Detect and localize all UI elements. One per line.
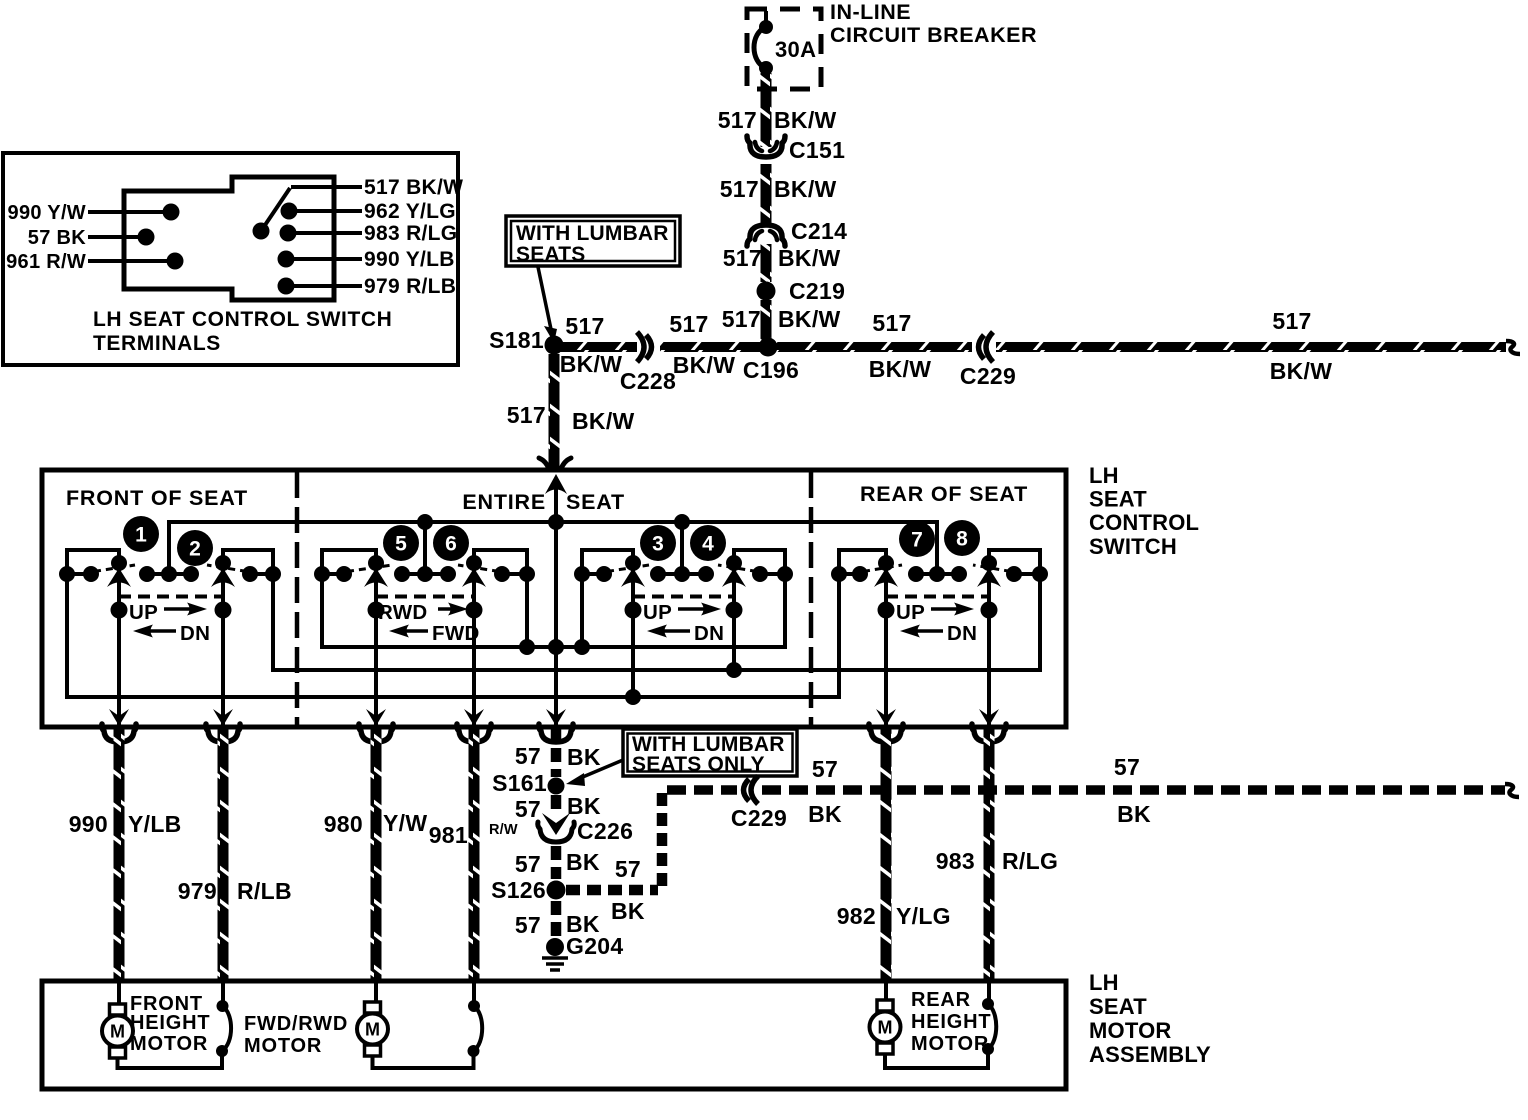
svg-text:517: 517 [720, 176, 759, 202]
svg-text:ASSEMBLY: ASSEMBLY [1089, 1042, 1211, 1067]
svg-text:517: 517 [722, 306, 761, 332]
svg-text:Y/LG: Y/LG [896, 903, 951, 929]
svg-text:517: 517 [723, 245, 762, 271]
svg-text:57: 57 [515, 743, 541, 769]
svg-text:SEATS ONLY: SEATS ONLY [632, 753, 765, 776]
svg-text:BK: BK [566, 849, 600, 875]
svg-text:UP: UP [896, 601, 925, 624]
svg-text:BK: BK [1117, 801, 1151, 827]
svg-text:WITH LUMBAR: WITH LUMBAR [516, 222, 669, 245]
svg-text:R/W: R/W [489, 822, 518, 838]
svg-text:UP: UP [643, 601, 672, 624]
svg-text:BK/W: BK/W [774, 107, 837, 133]
svg-text:983: 983 [936, 848, 975, 874]
svg-text:CONTROL: CONTROL [1089, 510, 1199, 535]
svg-text:57: 57 [1114, 754, 1140, 780]
svg-text:980: 980 [324, 811, 363, 837]
svg-text:BK: BK [567, 793, 601, 819]
svg-text:990: 990 [69, 811, 108, 837]
svg-text:S126: S126 [491, 877, 546, 903]
svg-text:M: M [365, 1020, 380, 1040]
svg-text:Y/W: Y/W [383, 810, 427, 836]
svg-text:SWITCH: SWITCH [1089, 534, 1177, 559]
svg-text:C219: C219 [789, 278, 845, 304]
svg-text:DN: DN [694, 622, 724, 645]
svg-text:S161: S161 [492, 770, 547, 796]
svg-text:517: 517 [718, 107, 757, 133]
svg-text:MOTOR: MOTOR [130, 1033, 208, 1055]
svg-text:30A: 30A [775, 37, 816, 62]
svg-text:RWD: RWD [378, 601, 428, 624]
svg-text:C226: C226 [577, 818, 633, 844]
svg-text:C228: C228 [620, 368, 676, 394]
svg-text:BK/W: BK/W [572, 408, 635, 434]
svg-text:FWD/RWD: FWD/RWD [244, 1013, 348, 1035]
svg-text:57: 57 [812, 756, 838, 782]
svg-text:517: 517 [872, 310, 911, 336]
svg-text:FRONT OF SEAT: FRONT OF SEAT [66, 486, 248, 510]
svg-text:CIRCUIT BREAKER: CIRCUIT BREAKER [830, 23, 1037, 47]
svg-text:BK/W: BK/W [1270, 358, 1333, 384]
svg-text:LH: LH [1089, 463, 1119, 488]
svg-text:SEAT: SEAT [1089, 994, 1147, 1019]
svg-text:979: 979 [178, 878, 217, 904]
svg-text:6: 6 [445, 533, 457, 556]
svg-text:DN: DN [180, 622, 210, 645]
svg-text:961 R/W: 961 R/W [6, 251, 86, 273]
svg-text:4: 4 [702, 533, 714, 556]
svg-text:BK/W: BK/W [673, 352, 736, 378]
svg-text:R/LG: R/LG [1002, 848, 1058, 874]
svg-text:TERMINALS: TERMINALS [93, 332, 221, 355]
svg-text:979 R/LB: 979 R/LB [364, 275, 456, 298]
svg-text:3: 3 [652, 533, 664, 556]
svg-text:REAR OF SEAT: REAR OF SEAT [860, 482, 1028, 506]
svg-text:REAR: REAR [911, 989, 971, 1011]
svg-text:57: 57 [615, 856, 641, 882]
svg-text:BK/W: BK/W [869, 356, 932, 382]
svg-text:BK: BK [567, 744, 601, 770]
svg-text:981: 981 [429, 822, 468, 848]
svg-text:57 BK: 57 BK [28, 227, 86, 249]
svg-text:517: 517 [565, 313, 604, 339]
svg-text:C229: C229 [731, 805, 787, 831]
svg-text:DN: DN [947, 622, 977, 645]
svg-text:HEIGHT: HEIGHT [130, 1012, 210, 1034]
svg-text:5: 5 [395, 533, 407, 556]
svg-text:BK/W: BK/W [778, 306, 841, 332]
svg-text:C151: C151 [789, 137, 845, 163]
svg-text:BK: BK [808, 801, 842, 827]
svg-text:HEIGHT: HEIGHT [911, 1011, 991, 1033]
svg-text:517: 517 [669, 311, 708, 337]
svg-text:LH: LH [1089, 970, 1119, 995]
svg-text:MOTOR: MOTOR [244, 1035, 322, 1057]
svg-text:ENTIRE: ENTIRE [462, 490, 546, 514]
svg-text:BK/W: BK/W [778, 245, 841, 271]
svg-text:M: M [878, 1018, 893, 1038]
svg-text:983 R/LG: 983 R/LG [364, 222, 457, 245]
svg-text:C214: C214 [791, 218, 847, 244]
svg-text:Y/LB: Y/LB [128, 811, 182, 837]
svg-text:BK/W: BK/W [774, 176, 837, 202]
svg-text:S181: S181 [489, 327, 544, 353]
svg-text:517: 517 [507, 402, 546, 428]
svg-text:SEAT: SEAT [1089, 487, 1147, 512]
svg-text:MOTOR: MOTOR [1089, 1018, 1171, 1043]
svg-text:SEATS: SEATS [516, 243, 585, 266]
svg-text:BK/W: BK/W [560, 351, 623, 377]
svg-text:517: 517 [1272, 308, 1311, 334]
svg-text:R/LB: R/LB [237, 878, 292, 904]
svg-text:517 BK/W: 517 BK/W [364, 176, 463, 199]
svg-text:BK: BK [611, 898, 645, 924]
svg-text:C196: C196 [743, 357, 799, 383]
svg-text:982: 982 [837, 903, 876, 929]
svg-text:962 Y/LG: 962 Y/LG [364, 200, 456, 223]
svg-text:990 Y/LB: 990 Y/LB [364, 248, 455, 271]
svg-text:M: M [110, 1022, 125, 1042]
svg-text:57: 57 [515, 912, 541, 938]
svg-text:57: 57 [515, 851, 541, 877]
svg-text:SEAT: SEAT [566, 490, 625, 514]
svg-text:IN-LINE: IN-LINE [830, 0, 911, 24]
svg-text:7: 7 [911, 529, 923, 552]
svg-text:2: 2 [189, 538, 201, 561]
svg-text:UP: UP [129, 601, 158, 624]
svg-text:990 Y/W: 990 Y/W [8, 202, 86, 224]
svg-text:1: 1 [135, 524, 147, 547]
svg-text:MOTOR: MOTOR [911, 1033, 989, 1055]
svg-text:LH SEAT CONTROL SWITCH: LH SEAT CONTROL SWITCH [93, 308, 392, 331]
svg-text:G204: G204 [566, 933, 623, 959]
svg-text:C229: C229 [960, 363, 1016, 389]
svg-text:57: 57 [515, 796, 541, 822]
svg-text:8: 8 [956, 528, 968, 551]
